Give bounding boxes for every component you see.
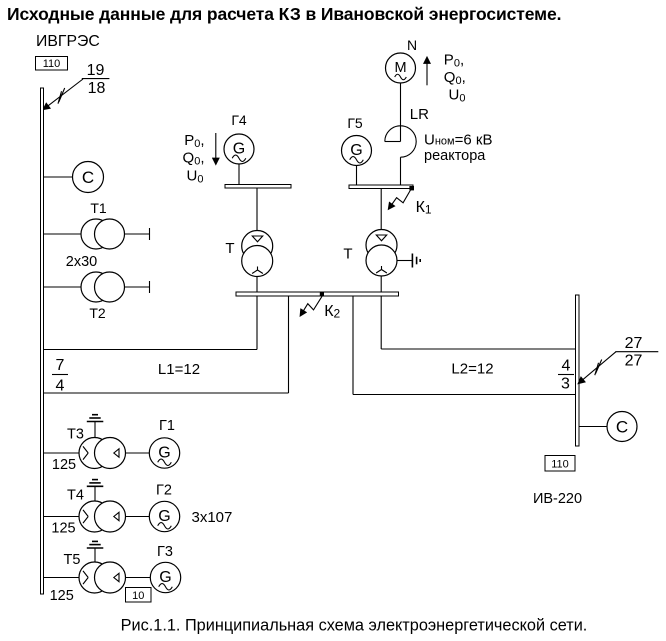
svg-text:Г5: Г5: [347, 115, 363, 131]
P0 Q0 U0 labels at Г4: [183, 132, 205, 186]
svg-text:Uном=6 кВ: Uном=6 кВ: [424, 132, 492, 149]
system source C: [73, 162, 104, 193]
svg-text:Т3: Т3: [67, 427, 84, 443]
node label fraction 19/18: [82, 62, 110, 97]
svg-text:Т: Т: [225, 240, 234, 257]
svg-text:Г4: Г4: [231, 112, 247, 128]
svg-text:К1: К1: [416, 199, 432, 217]
svg-text:U0: U0: [187, 168, 204, 186]
svg-text:125: 125: [51, 521, 75, 537]
transformer T (right, two-winding): [366, 230, 397, 277]
svg-text:Т2: Т2: [89, 305, 106, 321]
svg-text:C: C: [82, 168, 94, 187]
svg-text:реактора: реактора: [424, 148, 486, 164]
node label fraction 7/4: [52, 357, 68, 395]
wire T to middle busbar: [256, 277, 258, 293]
P0 Q0 U0 labels at N: [444, 52, 466, 105]
svg-text:Т5: Т5: [64, 552, 81, 568]
generator Г2: [149, 501, 179, 531]
generator Г3: [150, 562, 180, 592]
reactor LR: [385, 126, 416, 157]
fault lightning arrow to bus ИВ-220: [579, 352, 617, 384]
svg-text:LR: LR: [410, 106, 429, 123]
busbar generator Г4: [225, 185, 291, 189]
wire T5 to Г3: [126, 577, 151, 579]
wire bus to T2: [44, 286, 81, 288]
wire T4 to Г2: [126, 516, 150, 518]
svg-text:27: 27: [625, 335, 643, 352]
wire busbar to transformer T (right): [380, 189, 382, 231]
svg-text:К2: К2: [324, 303, 340, 321]
middle busbar: [236, 292, 399, 296]
wire L1 lower horizontal: [44, 392, 289, 394]
arrow up at N: [426, 58, 428, 86]
svg-text:Г1: Г1: [159, 418, 175, 434]
svg-text:18: 18: [88, 80, 106, 97]
transformer T3: [79, 438, 126, 469]
arrow down at Г4: [215, 133, 217, 164]
wire Г5 to busbar: [356, 166, 358, 186]
svg-text:Рис.1.1. Принципиальная схема: Рис.1.1. Принципиальная схема электроэне…: [121, 617, 588, 635]
ground (right transformer neutral): [412, 254, 420, 268]
wire L2 lower horizontal: [353, 394, 576, 396]
wire bus to T5: [44, 577, 95, 579]
wire L2 upper drop: [380, 296, 382, 349]
generator Г1: [149, 438, 179, 468]
svg-text:Q0,: Q0,: [444, 69, 466, 87]
system source C (right): [607, 412, 637, 442]
fault lightning arrow to bus ИВГРЭС: [44, 79, 84, 109]
svg-text:Т1: Т1: [90, 200, 107, 216]
node label fraction 27/27: [615, 335, 658, 370]
svg-text:Т: Т: [343, 246, 352, 263]
generator Г5: [342, 136, 372, 166]
wire L1 lower drop: [288, 296, 290, 393]
svg-text:Т4: Т4: [67, 488, 84, 504]
wire L2 lower drop: [352, 296, 354, 395]
wire bus to system C: [44, 176, 73, 178]
svg-text:L1=12: L1=12: [158, 361, 200, 378]
svg-text:27: 27: [625, 353, 643, 370]
fault lightning arrow К2: [300, 296, 322, 315]
wire Г4 to busbar: [238, 164, 240, 184]
wire bus to T4: [44, 516, 95, 518]
node label fraction 4/3: [558, 358, 574, 393]
wire reactor to busbar: [400, 157, 402, 185]
wire bus to T1: [44, 233, 81, 235]
svg-text:3: 3: [561, 376, 570, 393]
svg-text:7: 7: [56, 357, 65, 374]
svg-text:4: 4: [56, 378, 65, 395]
junction dot on Г5 busbar: [409, 186, 414, 190]
wire busbar to transformer T (left): [256, 188, 258, 231]
fault lightning arrow К1: [389, 190, 411, 210]
transformer T1: [81, 219, 125, 249]
transformer T2: [81, 272, 125, 302]
voltage box 110 (right): [545, 456, 575, 472]
svg-text:Исходные данные для расчета КЗ: Исходные данные для расчета КЗ в Ивановс…: [7, 4, 561, 24]
wire T neutral to ground: [397, 260, 412, 262]
busbar generator Г5: [349, 185, 413, 189]
svg-text:125: 125: [50, 588, 74, 604]
svg-text:P0,: P0,: [184, 132, 204, 150]
svg-text:110: 110: [43, 58, 61, 70]
svg-text:ИВГРЭС: ИВГРЭС: [36, 33, 100, 50]
svg-text:125: 125: [52, 457, 76, 473]
wire L1 upper horizontal: [44, 349, 257, 351]
wire bus to T3: [44, 452, 95, 454]
svg-text:Q0,: Q0,: [183, 150, 205, 168]
busbar ИВ-220 (right vertical bus): [576, 295, 580, 446]
junction dot on middle busbar: [320, 292, 324, 296]
terminal tick T1: [149, 228, 151, 240]
ground above T4: [87, 480, 104, 502]
transformer T (left, two-winding): [242, 231, 273, 277]
terminal tick T2: [149, 281, 151, 293]
svg-text:C: C: [616, 418, 628, 437]
svg-text:N: N: [407, 37, 417, 53]
busbar ИВГРЭС (left vertical bus): [41, 88, 44, 594]
transformer T5: [79, 562, 126, 593]
reactor value label: [424, 132, 492, 165]
svg-text:110: 110: [551, 459, 569, 471]
generator Г4: [224, 134, 254, 164]
wire L2 upper horizontal: [381, 348, 575, 350]
ground above T5: [87, 541, 104, 562]
svg-text:Г3: Г3: [157, 544, 173, 560]
svg-text:U0: U0: [449, 87, 466, 105]
svg-text:2х30: 2х30: [66, 254, 97, 270]
voltage box 110 (left): [36, 57, 68, 71]
wire T to middle busbar (right): [380, 276, 382, 292]
svg-text:4: 4: [562, 358, 571, 375]
wire T2 to terminal: [125, 286, 150, 288]
svg-text:Г2: Г2: [156, 483, 172, 499]
wire bus to system C (right): [579, 426, 607, 428]
svg-text:3х107: 3х107: [192, 509, 233, 526]
wire T3 to Г1: [126, 452, 150, 454]
svg-text:M: M: [394, 60, 406, 76]
wire T1 to terminal: [125, 233, 150, 235]
svg-text:ИВ-220: ИВ-220: [533, 491, 582, 507]
voltage box 10: [126, 588, 152, 603]
svg-text:L2=12: L2=12: [451, 361, 493, 378]
svg-text:P0,: P0,: [444, 52, 464, 70]
motor N: [386, 53, 416, 83]
ground above T3: [87, 415, 104, 438]
svg-text:10: 10: [132, 590, 144, 602]
wire N to reactor LR: [400, 83, 402, 142]
wire L1 upper drop: [256, 296, 258, 350]
transformer T4: [79, 501, 126, 532]
svg-text:19: 19: [87, 62, 105, 79]
